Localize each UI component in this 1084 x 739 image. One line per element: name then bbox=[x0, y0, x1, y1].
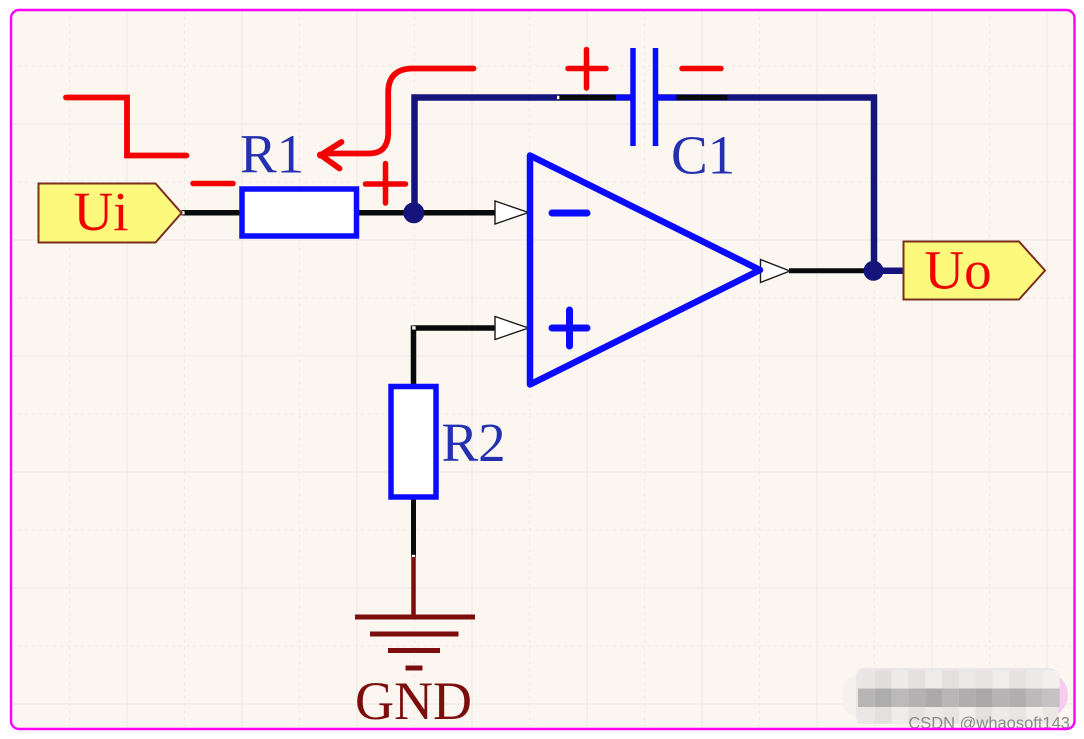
svg-text:Ui: Ui bbox=[74, 181, 129, 242]
svg-text:R1: R1 bbox=[240, 124, 304, 185]
svg-text:R2: R2 bbox=[442, 412, 506, 473]
svg-text:GND: GND bbox=[355, 671, 472, 731]
svg-text:C1: C1 bbox=[671, 125, 735, 186]
svg-text:Uo: Uo bbox=[924, 240, 991, 301]
